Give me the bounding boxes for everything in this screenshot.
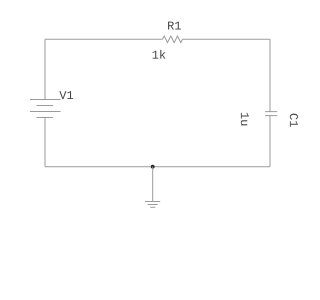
wire bottom [45,166,270,168]
wire battery to bottom-left corner [44,118,46,167]
wire right side top [269,39,271,111]
label C1 [290,114,298,127]
battery V1 [30,100,61,118]
label R1 [168,22,181,30]
capacitor C1 [265,112,277,116]
ground [145,202,160,208]
wire resistor to top-right corner [183,38,271,40]
wire capacitor to bottom-right corner [269,116,271,167]
label V1 [59,91,73,99]
wire left side top [44,39,46,99]
node junction dot [151,165,155,169]
resistor R1 [163,36,183,43]
wire top-left to resistor [45,38,163,40]
wire ground stem [152,167,154,202]
value 1k [153,50,166,59]
value 1u [241,113,249,126]
